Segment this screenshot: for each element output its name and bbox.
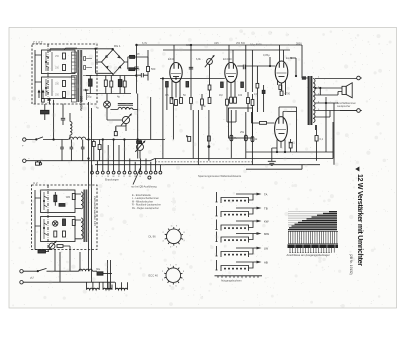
wire drop 231	[230, 110, 232, 159]
contact arms 2	[43, 192, 47, 239]
resistor R21	[251, 94, 254, 112]
svg-text:Lautsprecher: Lautsprecher	[337, 105, 351, 108]
svg-text:C.Ld.2: C.Ld.2	[33, 40, 43, 44]
smoothing rail	[86, 76, 137, 94]
grid wire V4	[252, 112, 275, 124]
connector row 1 pins	[91, 176, 142, 178]
svg-text:MW: MW	[264, 232, 269, 236]
resistor R26	[114, 127, 117, 136]
wire plate to OT top	[302, 45, 308, 78]
resistor R32 cathode	[289, 139, 292, 152]
connector row 2	[145, 169, 162, 175]
svg-text:RG 1: RG 1	[114, 44, 121, 48]
terminal K1	[357, 76, 362, 80]
svg-text:560: 560	[151, 67, 156, 71]
resistor R11	[175, 100, 178, 106]
tube V4	[275, 107, 297, 152]
rail E battery minus	[20, 281, 115, 284]
wire bridge left	[96, 61, 102, 63]
svg-text:Zerhackerwandler 12V: Zerhackerwandler 12V	[93, 196, 97, 226]
svg-text:250: 250	[55, 55, 60, 58]
capacitor C3	[118, 76, 122, 94]
switch row 4	[216, 232, 270, 243]
resistor R16	[208, 98, 211, 104]
resistor R2	[55, 65, 66, 71]
OT chart comb	[288, 231, 338, 243]
resistor R10	[170, 98, 173, 104]
wire T2 right drops	[88, 102, 92, 282]
resistor R45	[241, 82, 244, 88]
resistor R43	[186, 82, 189, 88]
socket ECC pin numbers	[162, 264, 185, 287]
wire left feed	[35, 50, 42, 104]
switch S4	[37, 268, 48, 271]
resistor R8	[123, 76, 126, 94]
wire terminal return	[340, 110, 357, 112]
resistor R30	[279, 85, 282, 90]
switch row 6	[216, 260, 268, 271]
svg-text:0,5: 0,5	[165, 94, 169, 97]
svg-text:0,1: 0,1	[320, 138, 324, 141]
svg-text:250: 250	[55, 94, 60, 97]
wire drop 150	[150, 97, 152, 140]
resistor R27	[92, 140, 95, 161]
svg-text:6,3V: 6,3V	[142, 42, 147, 45]
rail B1	[155, 158, 333, 160]
label speaker terminals	[337, 102, 357, 108]
resistor R3	[55, 81, 66, 87]
svg-text:Anschlüsse am Ausgangsübertrag: Anschlüsse am Ausgangsübertrager	[287, 253, 330, 257]
resistor R36	[72, 220, 75, 226]
svg-text:(2B Nr. 19132): (2B Nr. 19132)	[349, 254, 353, 275]
resistor R12	[180, 98, 183, 104]
resistor R29	[256, 66, 259, 112]
resistor R44	[221, 82, 224, 88]
feeder wire x136	[134, 44, 138, 93]
svg-text:WF: WF	[136, 53, 140, 56]
lamp LP2	[53, 221, 58, 226]
svg-text:12 W Verstärker mit Umrichter: 12 W Verstärker mit Umrichter	[356, 174, 363, 266]
svg-text:6,8k: 6,8k	[196, 58, 201, 61]
svg-text:100: 100	[238, 94, 243, 97]
svg-text:250: 250	[55, 67, 60, 70]
switch row 1	[216, 192, 268, 203]
resistor R19	[234, 97, 237, 103]
svg-text:480: 480	[66, 196, 71, 199]
screen divider 2	[47, 185, 49, 250]
inductor L3 vertical	[70, 113, 72, 140]
tube V3	[275, 45, 288, 95]
resistor R37	[54, 231, 66, 237]
svg-text:Anschlußklemmen: Anschlußklemmen	[337, 102, 357, 105]
output transformer core	[308, 76, 313, 125]
output transformer winding	[313, 79, 315, 123]
wire drops to rails	[55, 249, 80, 282]
grid wire V3	[256, 57, 275, 67]
capacitor C11	[59, 204, 65, 207]
transformer T1 core	[77, 50, 82, 102]
wire drop 208	[208, 110, 210, 161]
resistor R14	[201, 94, 204, 110]
resistor R22	[208, 136, 211, 148]
converter unit dashed enclosure	[32, 185, 98, 250]
tap numbers	[318, 77, 320, 111]
potentiometer P3	[135, 140, 144, 159]
capacitor C1 buffer	[41, 99, 50, 121]
wire drop x53	[53, 100, 54, 141]
svg-text:KW: KW	[264, 220, 269, 224]
title arrow	[355, 167, 359, 172]
choke wires	[107, 110, 138, 132]
svg-text:Spannungsmesser-Widerstandswer: Spannungsmesser-Widerstandswerte	[198, 174, 242, 178]
wire screen drop	[296, 107, 298, 152]
capacitor C10	[315, 125, 324, 161]
svg-text:4µ: 4µ	[117, 95, 120, 99]
resistor R23	[230, 135, 237, 141]
transformer T1 primary winding	[72, 52, 77, 73]
resistor R20	[247, 92, 250, 112]
speaker LS	[342, 83, 352, 98]
svg-text:1M: 1M	[219, 94, 222, 97]
wire drop 193	[192, 110, 194, 159]
rail A battery plus	[22, 138, 165, 148]
rail C	[95, 164, 320, 166]
rail dashed	[155, 161, 252, 163]
vibrator contact arms	[45, 52, 52, 96]
wire bridge top	[112, 48, 114, 50]
contact box S3a	[41, 190, 75, 213]
socket DL pin numbers	[163, 226, 186, 249]
resistor R42	[166, 82, 169, 111]
capacitor C4 input	[138, 73, 148, 77]
capacitor C2	[89, 76, 93, 94]
bridge rectifier RG1	[102, 50, 125, 75]
resistor R6	[104, 76, 107, 94]
switch row 5	[216, 246, 269, 257]
capacitor C5	[60, 140, 64, 161]
choke Dr1	[118, 104, 133, 110]
resistor R13	[190, 92, 193, 110]
rail B battery minus	[23, 156, 155, 162]
svg-text:ECC 40: ECC 40	[149, 274, 159, 278]
resistor R34	[66, 194, 75, 200]
potentiometer P4	[48, 241, 56, 251]
wire drop 198	[197, 110, 199, 165]
resistor R25	[251, 137, 258, 142]
resistor R40	[96, 268, 112, 275]
resistor R38	[38, 250, 49, 253]
trimmer P1	[205, 56, 214, 85]
ground	[268, 148, 277, 165]
svg-text:230V50Hz: 230V50Hz	[79, 96, 83, 111]
rail D battery plus	[20, 270, 97, 273]
switch row 2	[216, 206, 268, 217]
svg-text:250: 250	[55, 83, 60, 86]
svg-text:U25: U25	[214, 42, 219, 45]
switch row 3	[216, 220, 269, 231]
capacitor C6	[70, 140, 74, 161]
resistor R15	[208, 85, 211, 98]
transformer T2 core	[83, 190, 87, 243]
wire drop 227	[227, 105, 236, 122]
anode bus 3	[163, 49, 290, 51]
wire bridge bottom	[112, 75, 114, 76]
wire drop 252	[251, 50, 253, 165]
svg-text:0,1µ 5000: 0,1µ 5000	[250, 43, 262, 47]
capacitor C7	[81, 140, 85, 161]
tube socket ECC	[164, 266, 182, 285]
feedback rail	[246, 151, 333, 152]
OT chart lower pins	[289, 248, 334, 253]
terminal a	[39, 161, 41, 165]
inductor L2	[79, 269, 93, 271]
riser bundle	[92, 139, 141, 169]
component X1	[36, 161, 40, 166]
coupling capacitor C8	[237, 65, 256, 70]
resistor R9	[147, 50, 156, 81]
anode bus 2	[137, 44, 303, 46]
svg-text:DL 96: DL 96	[149, 235, 157, 239]
potentiometer P2	[121, 114, 131, 131]
OT chart tails	[288, 212, 329, 226]
terminal K2	[357, 109, 362, 113]
transformer T2 winding	[75, 192, 83, 239]
svg-text:TA: TA	[264, 193, 268, 197]
screen divider dash-dot	[47, 44, 49, 104]
resistor R24	[240, 131, 247, 141]
leader slash	[133, 167, 141, 185]
resistor R7	[110, 76, 113, 94]
small circle QB	[148, 176, 151, 179]
transformer T1 right taps	[83, 57, 92, 101]
OT chart dark band	[288, 244, 339, 248]
cathode bus jog	[160, 78, 225, 79]
transformer T4 winding row	[87, 288, 128, 289]
resistor R35	[63, 219, 66, 226]
switch S2	[36, 137, 44, 140]
svg-text:U 2: U 2	[33, 181, 38, 185]
legend	[132, 194, 161, 210]
wire drop 162	[162, 79, 164, 159]
wire drop 173	[172, 104, 174, 140]
wire OT drops	[316, 88, 339, 165]
diode D2	[186, 135, 191, 141]
wire box to transformer	[64, 48, 77, 95]
svg-text:0,05µ: 0,05µ	[263, 53, 270, 57]
resistor R33	[54, 192, 57, 206]
svg-text:30µ: 30µ	[96, 268, 101, 271]
wire drop 245	[245, 45, 247, 159]
resistor R4	[55, 92, 66, 98]
tube socket DL	[165, 227, 183, 246]
svg-text:RL - Regler-Lautsprecher: RL - Regler-Lautsprecher	[132, 207, 159, 210]
resistor R31	[280, 91, 291, 96]
capacitor C9	[262, 85, 265, 112]
transformer T1 secondary winding	[72, 76, 77, 103]
svg-text:nur bei QB-Ausführung: nur bei QB-Ausführung	[131, 185, 157, 188]
junction blob	[302, 76, 306, 79]
tube V2	[225, 45, 237, 99]
resistor R17	[226, 99, 229, 105]
OT tap wires	[315, 79, 357, 118]
resistor R18	[230, 97, 233, 103]
resistor R41	[130, 53, 149, 67]
top bus left	[50, 48, 113, 73]
resistor R5	[125, 57, 140, 72]
diode D1	[85, 89, 89, 92]
lamp LP1	[104, 94, 111, 121]
contact set box S1b	[42, 77, 76, 99]
riser bundle 2	[146, 159, 160, 169]
feeder wire x191	[189, 44, 193, 92]
contact box S3b	[41, 217, 75, 242]
svg-text:4700: 4700	[285, 93, 291, 96]
wire left feed 2	[35, 190, 52, 250]
svg-text:+: +	[22, 144, 24, 148]
svg-text:ECC40: ECC40	[223, 57, 232, 61]
wire screen V3	[290, 58, 297, 77]
svg-text:Einpolungen: Einpolungen	[105, 178, 120, 181]
resistor R39	[57, 245, 70, 272]
T4 risers	[87, 260, 128, 290]
switch matrix baseline	[215, 276, 263, 278]
rail F	[246, 165, 302, 170]
contact arrows	[38, 91, 51, 105]
tube V1	[170, 45, 182, 100]
network box	[229, 108, 253, 138]
svg-text:TB: TB	[264, 207, 268, 211]
vibrator unit dashed enclosure	[32, 44, 97, 104]
resistor R28	[98, 140, 101, 161]
connector row 1	[91, 169, 142, 175]
svg-text:AB: AB	[264, 261, 268, 265]
svg-text:300V: 300V	[296, 43, 302, 46]
wire drop 137	[137, 94, 138, 159]
svg-text:µU: µU	[30, 276, 34, 280]
inductor L1	[69, 137, 86, 139]
svg-text:LW: LW	[264, 247, 268, 251]
contact set box S1a	[42, 50, 76, 74]
OT chart staircase	[288, 211, 337, 230]
svg-text:EF40: EF40	[168, 57, 175, 61]
capacitor C12	[61, 104, 65, 125]
resistor R1	[55, 53, 66, 59]
